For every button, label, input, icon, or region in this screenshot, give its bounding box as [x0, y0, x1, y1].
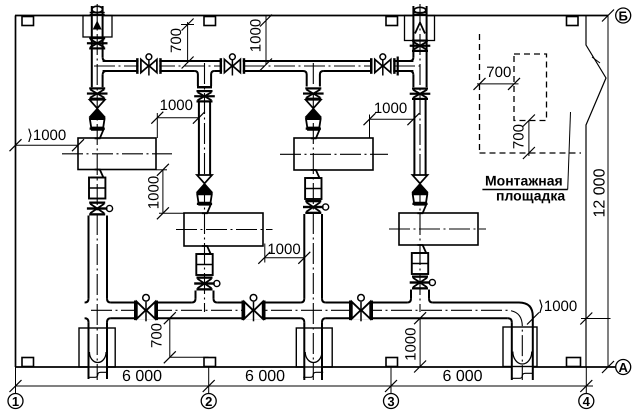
axis circle А	[616, 360, 631, 375]
gate valve col4 below header	[410, 88, 431, 101]
svg-text:2: 2	[205, 394, 212, 409]
gate valve col2	[194, 90, 215, 103]
dim 1000 pump1-col2	[157, 117, 199, 119]
pipe pit 1	[79, 328, 115, 367]
dim 1000 pump2-col3	[264, 257, 304, 259]
dim 1000 top	[265, 16, 267, 65]
right dimension line 12000	[607, 16, 609, 368]
discharge cone P3	[307, 170, 319, 178]
svg-text:6 000: 6 000	[442, 368, 482, 385]
tick axis2	[203, 380, 215, 392]
pier bottom 3	[386, 358, 398, 367]
discharge cone P2	[198, 246, 210, 254]
axis circle 1	[8, 394, 23, 409]
dim 700 bottom	[169, 318, 171, 357]
flange pair header at col4	[397, 57, 399, 76]
centerline col4	[419, 4, 421, 312]
tee fillets col1	[103, 57, 107, 75]
dim 700 montage vertical	[528, 121, 530, 157]
check valve col1	[90, 100, 105, 117]
dim 1000 bottom col4	[419, 318, 421, 366]
pump P2 axis	[176, 229, 273, 231]
pump P2	[184, 213, 263, 246]
svg-text:1000: 1000	[146, 176, 163, 209]
spool P1	[89, 178, 105, 199]
valve V6 bottom header	[349, 295, 373, 322]
axis 3 extension	[390, 367, 392, 394]
bottom dimension line	[15, 385, 593, 387]
reducer col3	[305, 117, 321, 130]
dim 1000 pump3-col4	[370, 118, 414, 120]
svg-text:700: 700	[168, 28, 185, 53]
valve V1 top header	[136, 54, 162, 76]
pipe break col1	[88, 372, 108, 377]
pump P1	[78, 138, 156, 170]
suction cone col4	[414, 205, 426, 214]
pipe riser col1 through top wall	[92, 6, 103, 87]
dashed montage boundary bottom	[480, 152, 582, 154]
discharge stub P2 to header	[196, 291, 214, 299]
pipe bend arc col1 pit	[89, 352, 106, 362]
discharge valve P3	[303, 200, 329, 214]
pier bottom 4	[567, 358, 581, 367]
pipe col2	[199, 102, 210, 175]
spool P3	[305, 178, 321, 199]
wall top (row Б)	[15, 15, 608, 17]
pier top 2	[204, 17, 216, 26]
svg-text:3: 3	[387, 394, 394, 409]
centerline col1	[96, 4, 98, 380]
svg-text:6 000: 6 000	[245, 368, 285, 385]
break tick top	[592, 57, 600, 63]
axis circle 3	[384, 394, 399, 409]
axis 2 extension	[208, 367, 210, 394]
reducer col1	[89, 117, 105, 130]
elbow to exit pipe	[508, 303, 533, 323]
top cap col1	[92, 6, 103, 12]
wire bottom header top wall	[111, 302, 519, 304]
valve V4 bottom header	[134, 295, 158, 322]
spool P4	[412, 253, 428, 274]
svg-text:1000: 1000	[267, 241, 300, 258]
valve V5 bottom header	[242, 295, 266, 322]
svg-text:Б: Б	[619, 9, 628, 24]
suction cone col2	[198, 205, 210, 214]
discharge pipe col3	[304, 214, 322, 380]
svg-text:6 000: 6 000	[122, 368, 162, 385]
reducer col2	[197, 192, 213, 205]
discharge pipe col1	[89, 216, 108, 380]
svg-text:А: А	[619, 360, 629, 375]
check valve col3	[306, 100, 321, 117]
wall right with break (axis 4)	[586, 16, 606, 368]
dim 1000 pump1-pump2 vertical	[162, 170, 164, 214]
suction cone col3	[307, 130, 319, 139]
dim 700 top	[187, 22, 189, 63]
pipe bend arc exit pit	[513, 352, 532, 365]
dashed inner rect	[514, 54, 547, 121]
discharge valve P1	[87, 202, 113, 216]
centerline col2	[204, 63, 206, 312]
tee fillets col3 stub	[303, 71, 324, 75]
leader montage	[568, 112, 571, 190]
wall left (axis 1)	[15, 16, 17, 368]
gate valve col4 upper	[410, 40, 431, 53]
pump P4 axis	[389, 228, 486, 230]
svg-text:12 000: 12 000	[592, 168, 609, 217]
stub end flange col2	[197, 86, 212, 88]
discharge valve P2	[194, 277, 220, 291]
axis circle Б	[602, 10, 614, 22]
svg-text:700: 700	[149, 323, 166, 348]
node top header centerline	[94, 65, 424, 67]
tee stub col3	[307, 75, 320, 87]
svg-text:⟩1000: ⟩1000	[538, 298, 577, 315]
check valve col4	[412, 175, 427, 192]
wire bottom header bottom wall	[111, 317, 508, 319]
reducer col4	[412, 192, 428, 205]
svg-text:⟩1000: ⟩1000	[27, 127, 66, 144]
pier top 3	[386, 17, 398, 26]
svg-text:700: 700	[511, 124, 528, 149]
tee fillets col4	[410, 57, 414, 75]
pipe bend arc col3 pit	[305, 352, 322, 362]
pump P3	[294, 138, 373, 170]
wire top header walls	[103, 60, 414, 62]
pipe break exit	[512, 373, 532, 378]
flow arrow col1	[93, 21, 102, 30]
wall bottom (row А)	[15, 366, 616, 368]
pipe pit 3	[296, 328, 332, 367]
suction cone col1	[91, 130, 103, 139]
axis circle 4	[579, 394, 594, 409]
valve V3 top header	[370, 54, 396, 76]
check valve col2	[197, 175, 212, 192]
dashed montage boundary left	[479, 34, 481, 153]
discharge cone P1	[91, 170, 103, 178]
gate valve col1 below header	[87, 87, 108, 100]
tee fillets col2 stub	[195, 71, 215, 75]
pump P3 axis	[280, 153, 388, 155]
pipe riser col4 through top wall	[413, 6, 426, 87]
pipe col4	[414, 100, 425, 175]
tick axis4	[580, 380, 592, 392]
pump P1 axis	[62, 153, 172, 155]
svg-text:4: 4	[583, 394, 591, 409]
discharge cone P4	[414, 245, 426, 253]
axis 4 extension	[585, 367, 587, 394]
gate valve col3	[303, 87, 324, 100]
dim 700 montage horizontal	[477, 83, 519, 85]
top cap col4	[414, 7, 426, 13]
svg-text:1000: 1000	[374, 100, 407, 117]
pier bottom 1	[22, 358, 34, 367]
spool P2	[196, 254, 212, 275]
svg-text:1000: 1000	[160, 97, 193, 114]
discharge valve P4	[410, 276, 436, 290]
exit pipe walls	[512, 317, 533, 381]
axis circle 2	[201, 394, 216, 409]
sleeve box col4	[405, 16, 435, 41]
extension at header level	[581, 318, 611, 320]
sleeve box col1	[83, 16, 112, 38]
pipe break col3	[303, 372, 323, 377]
svg-text:Монтажная: Монтажная	[485, 173, 563, 189]
pipe pit right	[503, 327, 537, 367]
svg-text:1000: 1000	[248, 19, 265, 52]
svg-text:700: 700	[486, 64, 511, 81]
cross fillets col1/bottom header	[85, 299, 111, 323]
pump P4	[399, 213, 478, 245]
flow arrow col4	[415, 23, 425, 34]
cross fillets col3/bottom header	[300, 299, 326, 323]
pier top 1	[22, 17, 34, 26]
tick axis1	[10, 380, 22, 392]
svg-text:1: 1	[12, 394, 19, 409]
node bottom header centerline	[91, 310, 522, 380]
axis 1 extension	[15, 367, 17, 394]
discharge stub P4 to header	[411, 290, 429, 299]
tick axis3	[385, 380, 397, 392]
gate valve col1 upper	[87, 37, 108, 50]
svg-text:1000: 1000	[403, 328, 420, 361]
pier top 4	[567, 17, 579, 26]
pier bottom 2	[204, 358, 216, 367]
centerline col3	[312, 63, 314, 380]
tee stub col2	[198, 75, 211, 87]
valve V2 top header	[220, 54, 246, 76]
